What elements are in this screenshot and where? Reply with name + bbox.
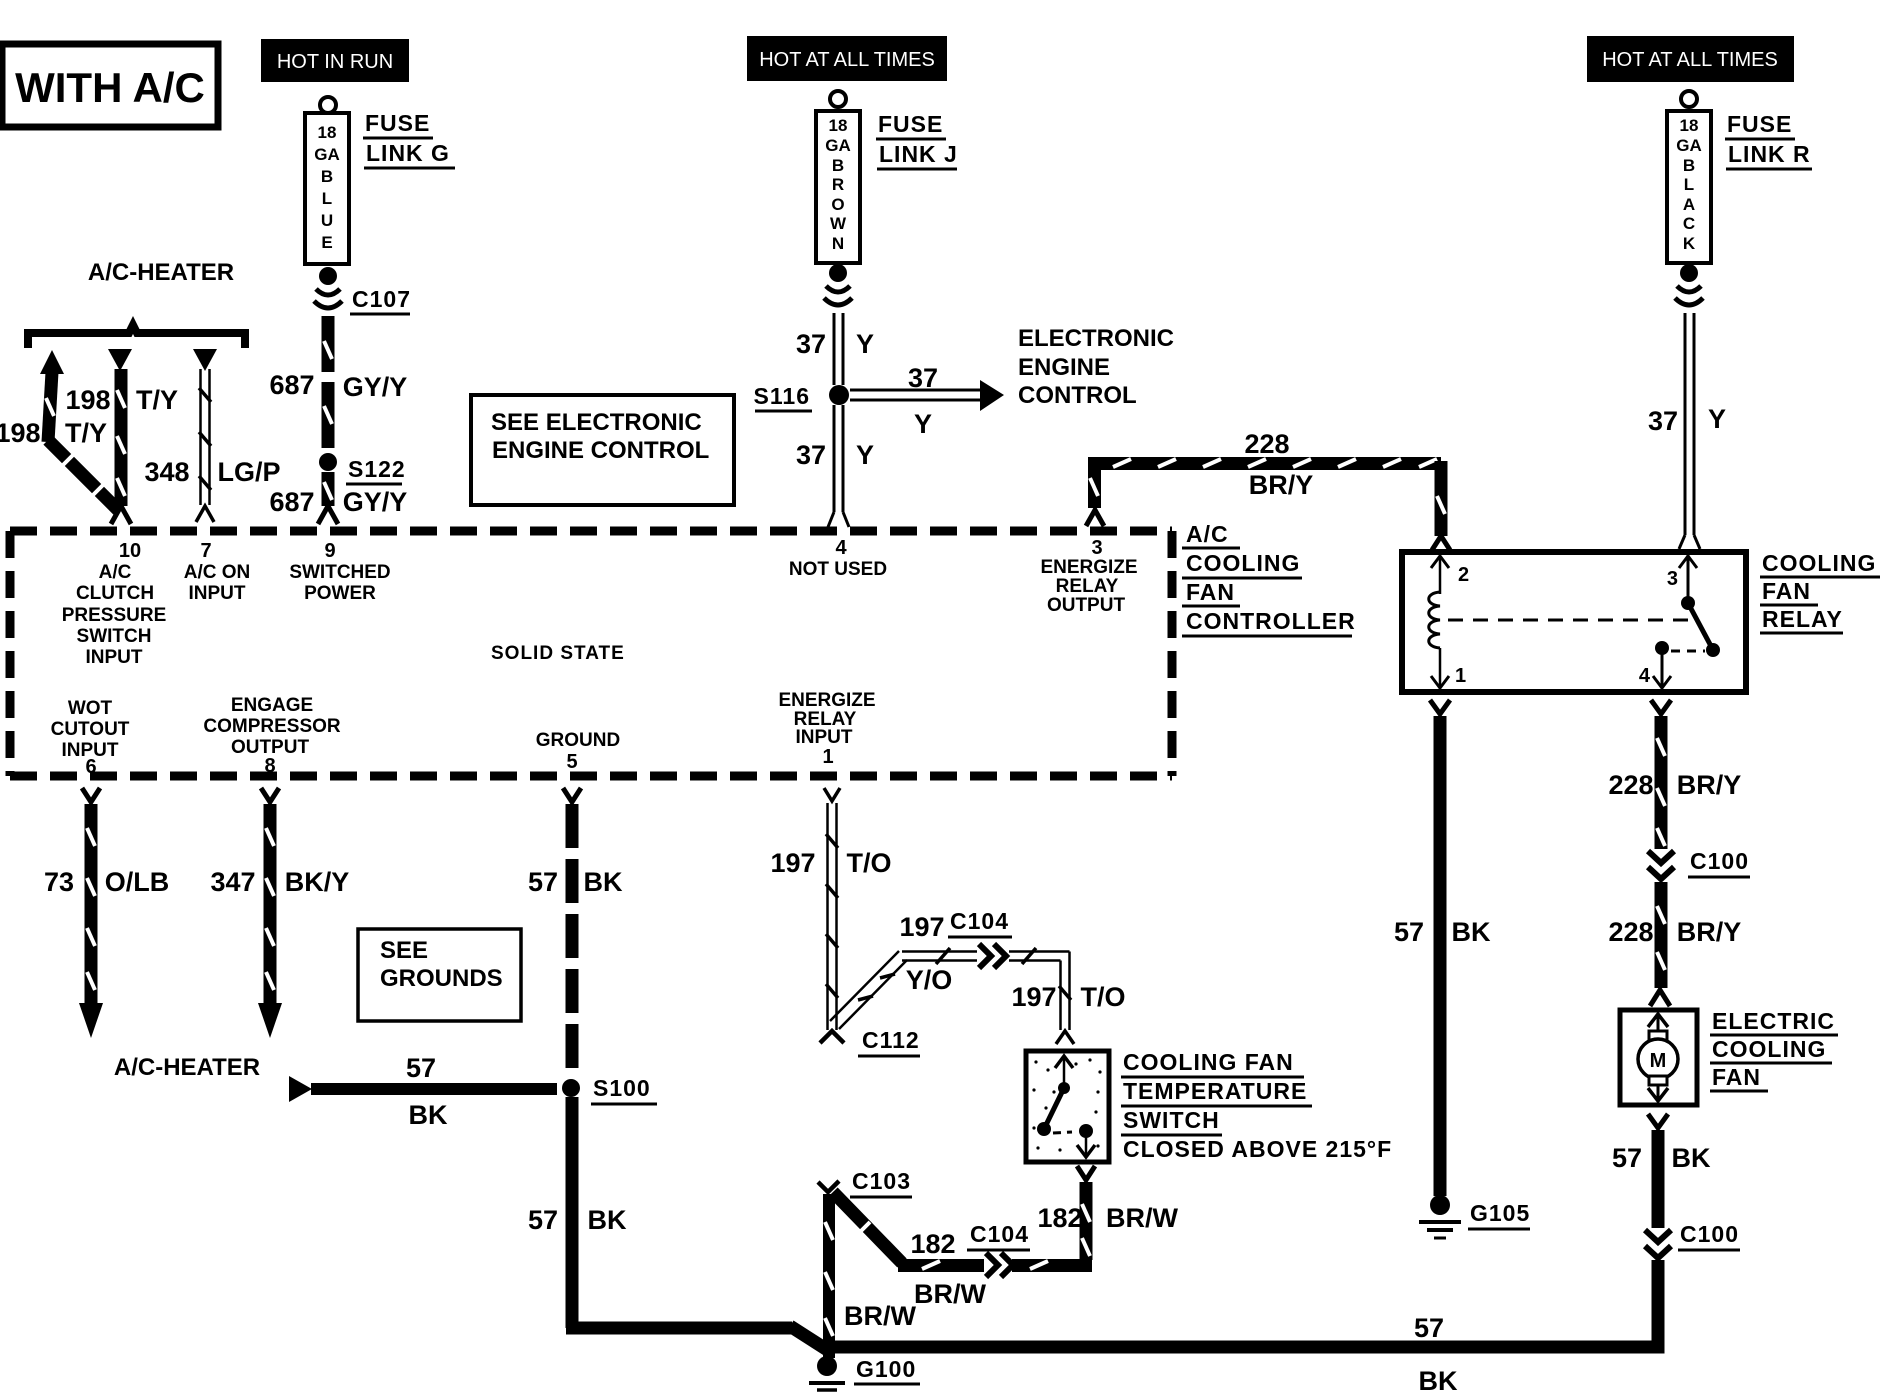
svg-text:57: 57	[406, 1053, 436, 1083]
svg-text:CLOSED ABOVE 215°F: CLOSED ABOVE 215°F	[1123, 1136, 1392, 1162]
splice S116	[754, 383, 849, 411]
wire 182 BR/W (C103 to G100)	[825, 1194, 917, 1358]
motor M1 ELECTRIC COOLING FAN	[1620, 1010, 1697, 1105]
svg-text:GY/Y: GY/Y	[343, 372, 408, 402]
svg-text:C112: C112	[862, 1027, 920, 1053]
pin 6 WOT CUTOUT INPUT	[51, 698, 130, 778]
wire 37 Y (S116 to EEC arrow)	[850, 363, 1004, 439]
svg-text:SOLID STATE: SOLID STATE	[491, 643, 625, 664]
relay internal dashed link	[1448, 619, 1688, 622]
svg-text:57: 57	[1612, 1143, 1642, 1173]
wire 57 BK (fan to C100 lower)	[1612, 1114, 1711, 1228]
svg-text:COOLING: COOLING	[1762, 550, 1876, 576]
pin 5 GROUND	[536, 730, 620, 773]
svg-text:INPUT: INPUT	[86, 647, 143, 668]
svg-text:Y: Y	[856, 440, 874, 470]
svg-text:347: 347	[210, 867, 255, 897]
svg-text:TEMPERATURE: TEMPERATURE	[1123, 1078, 1307, 1104]
relay pin 2 and coil	[1429, 556, 1469, 688]
svg-text:GA: GA	[825, 136, 851, 155]
svg-text:197: 197	[1011, 982, 1056, 1012]
svg-text:A/C: A/C	[1186, 521, 1229, 547]
svg-text:BK: BK	[588, 1205, 627, 1235]
connector C100 (lower)	[1645, 1221, 1740, 1258]
svg-text:182: 182	[1037, 1203, 1082, 1233]
svg-text:C100: C100	[1690, 848, 1749, 874]
svg-text:57: 57	[528, 1205, 558, 1235]
wire 198 T/Y (vertical to pin 10)	[65, 349, 178, 524]
svg-text:Y: Y	[1708, 404, 1726, 434]
svg-text:BK: BK	[584, 867, 623, 897]
svg-text:198: 198	[65, 385, 110, 415]
wire 182 BR/W (temp switch to C104 lower)	[1012, 1166, 1179, 1269]
splice S100	[562, 1075, 657, 1104]
pin 8 ENGAGE COMPRESSOR OUTPUT	[203, 695, 341, 777]
fuse link R	[1667, 91, 1711, 305]
svg-text:37: 37	[1648, 406, 1678, 436]
svg-text:SWITCH: SWITCH	[1123, 1107, 1220, 1133]
ground G100	[809, 1356, 920, 1390]
svg-text:Y: Y	[856, 329, 874, 359]
svg-text:L: L	[322, 189, 332, 208]
svg-text:HOT AT ALL TIMES: HOT AT ALL TIMES	[759, 49, 935, 71]
svg-text:HOT IN RUN: HOT IN RUN	[277, 51, 393, 73]
wire 73 O/LB (pin 6 to A/C-heater)	[44, 788, 169, 1038]
svg-text:G105: G105	[1470, 1200, 1530, 1226]
svg-text:10: 10	[119, 540, 141, 562]
wire 228 BR/Y (relay pin 4 to C100)	[1608, 700, 1741, 849]
svg-text:G100: G100	[856, 1356, 916, 1382]
wire 37 Y (fuse J to S116)	[796, 313, 874, 385]
wire 37 Y (fuse R to relay pin 3)	[1648, 313, 1726, 549]
svg-text:228: 228	[1608, 770, 1653, 800]
svg-text:GA: GA	[314, 145, 340, 164]
svg-text:W: W	[830, 214, 847, 233]
svg-text:18: 18	[1680, 116, 1699, 135]
svg-text:197: 197	[770, 848, 815, 878]
svg-text:E: E	[321, 233, 332, 252]
svg-text:2: 2	[1458, 564, 1469, 586]
svg-text:18: 18	[318, 123, 337, 142]
svg-text:BR/Y: BR/Y	[1677, 770, 1742, 800]
svg-text:RELAY: RELAY	[1056, 576, 1119, 597]
svg-text:GA: GA	[1676, 136, 1702, 155]
title box WITH A/C	[2, 44, 218, 127]
note box SEE GROUNDS	[358, 929, 521, 1021]
svg-text:BK: BK	[1419, 1366, 1458, 1392]
wire 182 BR/W (C104 to C103)	[833, 1192, 987, 1309]
svg-text:SWITCH: SWITCH	[77, 626, 152, 647]
wire 687 GY/Y (S122 to pin 9)	[269, 472, 407, 524]
pin 10 A/C CLUTCH PRESSURE SWITCH INPUT	[62, 540, 167, 668]
wire 57 BK (relay pin 1 to G105)	[1394, 700, 1491, 1196]
pin 1 ENERGIZE RELAY INPUT	[778, 690, 875, 768]
svg-text:3: 3	[1091, 537, 1102, 559]
svg-text:ENGINE CONTROL: ENGINE CONTROL	[492, 437, 709, 464]
svg-text:CONTROLLER: CONTROLLER	[1186, 608, 1356, 634]
svg-text:37: 37	[796, 329, 826, 359]
svg-text:POWER: POWER	[304, 583, 376, 604]
svg-text:CLUTCH: CLUTCH	[76, 583, 154, 604]
svg-text:T/Y: T/Y	[65, 418, 107, 448]
svg-text:INPUT: INPUT	[189, 583, 246, 604]
svg-text:C103: C103	[852, 1168, 911, 1194]
svg-text:9: 9	[324, 540, 335, 562]
svg-text:5: 5	[566, 751, 577, 773]
svg-text:A/C-HEATER: A/C-HEATER	[114, 1054, 260, 1081]
svg-text:A/C-HEATER: A/C-HEATER	[88, 259, 234, 286]
svg-text:8: 8	[264, 755, 275, 777]
svg-text:K: K	[1683, 234, 1696, 253]
svg-text:4: 4	[835, 537, 847, 559]
svg-text:687: 687	[269, 370, 314, 400]
svg-text:N: N	[832, 234, 844, 253]
note box SEE ELECTRONIC ENGINE CONTROL	[471, 395, 734, 505]
svg-text:4: 4	[1639, 665, 1651, 687]
svg-text:LINK J: LINK J	[879, 141, 958, 167]
svg-text:ENERGIZE: ENERGIZE	[778, 690, 875, 711]
fuse link G	[305, 97, 349, 285]
svg-text:ELECTRONIC: ELECTRONIC	[1018, 325, 1174, 352]
pin 4 NOT USED	[789, 537, 887, 580]
connector C103	[818, 1168, 912, 1197]
svg-text:O/LB: O/LB	[105, 867, 170, 897]
svg-text:ENERGIZE: ENERGIZE	[1040, 557, 1137, 578]
connector C112	[820, 1027, 920, 1056]
svg-text:L: L	[1684, 175, 1694, 194]
fuse link J	[816, 91, 860, 305]
svg-text:FAN: FAN	[1762, 578, 1811, 604]
svg-text:C: C	[1683, 214, 1695, 233]
wire 228 BR/Y (pin 3 to relay pin 2)	[1086, 429, 1450, 550]
svg-text:ENGAGE: ENGAGE	[231, 695, 313, 716]
svg-text:198: 198	[0, 418, 41, 448]
svg-text:FUSE: FUSE	[365, 110, 430, 136]
svg-text:1: 1	[1455, 665, 1466, 687]
svg-text:BR/W: BR/W	[914, 1279, 986, 1309]
wire 347 BK/Y (pin 8 to A/C-heater)	[210, 788, 349, 1038]
label COOLING FAN RELAY	[1760, 550, 1880, 633]
svg-text:ELECTRIC: ELECTRIC	[1712, 1008, 1835, 1034]
svg-text:R: R	[832, 175, 844, 194]
wire 198 T/Y (branch to A/C-heater, up arrow)	[0, 350, 118, 510]
svg-text:SEE ELECTRONIC: SEE ELECTRONIC	[491, 409, 702, 436]
connector C104 (upper)	[948, 908, 1012, 968]
svg-text:INPUT: INPUT	[796, 727, 853, 748]
svg-text:BR/W: BR/W	[844, 1301, 916, 1331]
svg-text:BR/Y: BR/Y	[1677, 917, 1742, 947]
connector C100 (upper)	[1648, 848, 1750, 879]
relay pin 3 and switch	[1667, 555, 1720, 657]
svg-text:T/O: T/O	[847, 848, 892, 878]
svg-text:M: M	[1650, 1050, 1667, 1072]
svg-text:7: 7	[200, 540, 211, 562]
relay K1 COOLING FAN RELAY box	[1402, 552, 1746, 692]
svg-text:57: 57	[1394, 917, 1424, 947]
svg-text:COOLING: COOLING	[1712, 1036, 1826, 1062]
svg-text:228: 228	[1244, 429, 1289, 459]
wire 57 BK (S100 down to G100 run)	[528, 1097, 829, 1351]
svg-text:O: O	[831, 195, 844, 214]
label A/C COOLING FAN CONTROLLER	[1182, 521, 1356, 636]
svg-text:ENGINE: ENGINE	[1018, 354, 1110, 381]
svg-text:C104: C104	[970, 1221, 1029, 1247]
power label HOT AT ALL TIMES (right)	[1587, 36, 1794, 82]
svg-text:GROUNDS: GROUNDS	[380, 965, 503, 992]
wire 197 Y/O (C112 to C104)	[830, 912, 977, 1029]
svg-text:A: A	[1683, 195, 1695, 214]
ground G105	[1419, 1195, 1530, 1238]
svg-text:U: U	[321, 211, 333, 230]
svg-text:S116: S116	[754, 383, 810, 409]
label FUSE LINK J	[876, 111, 958, 169]
label FUSE LINK G	[363, 110, 455, 168]
svg-text:CONTROL: CONTROL	[1018, 382, 1137, 409]
svg-text:FAN: FAN	[1186, 579, 1235, 605]
connector C104 (lower)	[967, 1221, 1030, 1277]
svg-text:C107: C107	[352, 286, 411, 312]
wire 57 BK (S100 to A/C-heater arrow)	[289, 1053, 557, 1130]
svg-text:OUTPUT: OUTPUT	[1047, 595, 1126, 616]
wire 57 BK (G100 to fan drop, bottom run)	[822, 1313, 1662, 1392]
relay pin 4	[1639, 641, 1705, 688]
A/C cooling fan controller dashed box	[10, 531, 1172, 776]
wire 348 LG/P (to pin 7)	[144, 349, 280, 522]
svg-text:BR/W: BR/W	[1106, 1203, 1178, 1233]
svg-text:A/C ON: A/C ON	[184, 562, 251, 583]
splice S122	[319, 453, 406, 484]
label FUSE LINK R	[1725, 111, 1812, 169]
svg-text:C104: C104	[950, 908, 1009, 934]
pin 3 ENERGIZE RELAY OUTPUT	[1040, 537, 1137, 616]
power label HOT IN RUN	[261, 39, 409, 82]
svg-text:T/O: T/O	[1081, 982, 1126, 1012]
svg-text:A/C: A/C	[99, 562, 132, 583]
label COOLING FAN TEMPERATURE SWITCH	[1121, 1049, 1392, 1162]
svg-text:BK/Y: BK/Y	[285, 867, 350, 897]
svg-text:Y/O: Y/O	[906, 965, 953, 995]
svg-text:SEE: SEE	[380, 937, 428, 964]
svg-text:PRESSURE: PRESSURE	[62, 605, 167, 626]
node ELECTRONIC ENGINE CONTROL	[1018, 325, 1174, 409]
svg-text:LINK R: LINK R	[1728, 141, 1811, 167]
svg-text:LG/P: LG/P	[217, 457, 280, 487]
svg-text:BK: BK	[1452, 917, 1491, 947]
svg-text:348: 348	[144, 457, 189, 487]
svg-text:37: 37	[796, 440, 826, 470]
svg-text:57: 57	[1414, 1313, 1444, 1343]
svg-text:6: 6	[85, 756, 96, 778]
svg-text:GY/Y: GY/Y	[343, 487, 408, 517]
wire 687 GY/Y (C107 to S122)	[269, 316, 407, 448]
svg-text:COOLING FAN: COOLING FAN	[1123, 1049, 1294, 1075]
svg-text:NOT USED: NOT USED	[789, 559, 887, 580]
svg-text:LINK G: LINK G	[366, 140, 450, 166]
svg-text:FAN: FAN	[1712, 1064, 1761, 1090]
svg-text:687: 687	[269, 487, 314, 517]
svg-text:BK: BK	[1672, 1143, 1711, 1173]
svg-text:GROUND: GROUND	[536, 730, 620, 751]
svg-text:COMPRESSOR: COMPRESSOR	[203, 716, 341, 737]
svg-text:182: 182	[910, 1229, 955, 1259]
svg-text:57: 57	[528, 867, 558, 897]
svg-text:WOT: WOT	[68, 698, 113, 719]
wire 57 BK (pin 5 to S100)	[528, 788, 623, 1078]
svg-text:18: 18	[829, 116, 848, 135]
pin 9 SWITCHED POWER	[289, 540, 390, 604]
svg-text:COOLING: COOLING	[1186, 550, 1300, 576]
svg-text:T/Y: T/Y	[136, 385, 178, 415]
svg-text:BK: BK	[409, 1100, 448, 1130]
svg-text:1: 1	[822, 746, 833, 768]
svg-text:197: 197	[899, 912, 944, 942]
svg-text:228: 228	[1608, 917, 1653, 947]
svg-text:S122: S122	[348, 456, 406, 482]
svg-text:B: B	[832, 156, 844, 175]
svg-text:BR/Y: BR/Y	[1249, 470, 1314, 500]
svg-text:37: 37	[908, 363, 938, 393]
svg-text:B: B	[321, 167, 333, 186]
svg-text:73: 73	[44, 867, 74, 897]
svg-text:C100: C100	[1680, 1221, 1739, 1247]
svg-text:S100: S100	[593, 1075, 651, 1101]
connector C107	[314, 286, 411, 314]
wire 197 T/O (C104 to temp switch)	[1009, 948, 1126, 1044]
wire 228 BR/Y (C100 to fan)	[1608, 882, 1741, 1006]
svg-text:FUSE: FUSE	[878, 111, 943, 137]
bracket	[28, 325, 245, 348]
wire 37 Y (S116 to pin 4)	[796, 405, 874, 527]
svg-text:RELAY: RELAY	[1762, 606, 1843, 632]
wire 57 BK (C100 to bottom run)	[1650, 1260, 1658, 1347]
pin 7 A/C ON INPUT	[184, 540, 251, 604]
svg-text:3: 3	[1667, 568, 1678, 590]
svg-text:HOT AT ALL TIMES: HOT AT ALL TIMES	[1602, 49, 1778, 71]
svg-text:SWITCHED: SWITCHED	[289, 562, 390, 583]
svg-text:FUSE: FUSE	[1727, 111, 1792, 137]
switch S2 COOLING FAN TEMPERATURE SWITCH	[1026, 1051, 1109, 1162]
svg-text:CUTOUT: CUTOUT	[51, 719, 130, 740]
power label HOT AT ALL TIMES (center)	[747, 36, 947, 81]
svg-text:WITH A/C: WITH A/C	[15, 64, 205, 111]
label ELECTRIC COOLING FAN	[1710, 1008, 1838, 1091]
svg-text:B: B	[1683, 156, 1695, 175]
wire 197 T/O (pin 1 to C112)	[770, 788, 891, 1030]
svg-text:Y: Y	[914, 409, 932, 439]
